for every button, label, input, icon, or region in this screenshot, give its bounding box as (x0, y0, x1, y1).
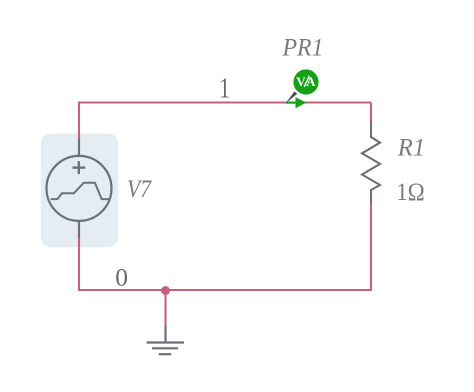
wire ground stem (164, 290, 166, 327)
junction node 0 dot (161, 286, 170, 295)
wire left bottom (78, 238, 80, 290)
resistor R1 (362, 121, 380, 203)
pin top (78, 139, 80, 156)
ground (147, 326, 185, 354)
svg-text:A: A (306, 74, 316, 89)
probe arrow (296, 97, 307, 108)
wire right top (370, 103, 372, 122)
selection highlight V7 (41, 134, 119, 248)
probe head circle (293, 69, 320, 96)
wire bottom (node 0) (78, 289, 372, 291)
probe wire sense segment (286, 101, 296, 103)
voltage source V7 (47, 139, 112, 238)
probe needle (286, 91, 298, 103)
svg-text:R1: R1 (397, 134, 425, 161)
wire right bottom (370, 203, 372, 290)
svg-text:1: 1 (219, 73, 230, 104)
svg-text:V7: V7 (127, 176, 152, 203)
body circle (47, 156, 112, 221)
pin bottom (78, 221, 80, 238)
wire top (node 1) (79, 103, 371, 140)
svg-text:0: 0 (115, 262, 128, 291)
svg-text:PR1: PR1 (282, 35, 324, 62)
plus sign (72, 166, 85, 168)
pwl waveform (51, 183, 110, 199)
probe PR1 (286, 69, 320, 109)
svg-text:1Ω: 1Ω (396, 179, 425, 206)
